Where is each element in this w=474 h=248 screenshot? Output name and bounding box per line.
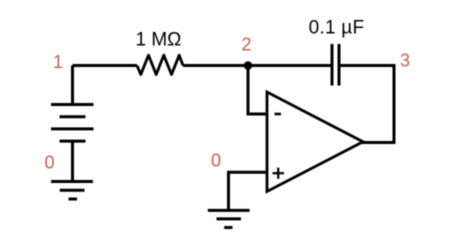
ground (op-amp non-inverting input) [208, 209, 250, 212]
battery V1 [51, 103, 94, 106]
svg-text:3: 3 [400, 51, 410, 71]
svg-text:1: 1 [53, 52, 63, 72]
op-amp U1 triangle [267, 92, 363, 192]
svg-text:2: 2 [242, 35, 252, 55]
wire node 1 down to battery [71, 66, 74, 105]
svg-text:0: 0 [211, 151, 221, 171]
op-amp non-inverting input marker + [273, 172, 285, 174]
ground (battery) [51, 180, 93, 183]
wire battery to ground [71, 141, 74, 181]
capacitor C1 plates [331, 44, 334, 86]
wire non-inverting input to ground [229, 172, 268, 210]
svg-text:1 MΩ: 1 MΩ [136, 30, 182, 51]
op-amp inverting input marker - [275, 113, 282, 116]
svg-text:0: 0 [45, 153, 55, 173]
wire capacitor to node 3 corner down to op-amp output [341, 66, 395, 143]
svg-text:0.1 µF: 0.1 µF [309, 17, 365, 38]
resistor R1 1 MΩ [137, 55, 183, 74]
wire resistor to capacitor (through node 2) [183, 64, 331, 67]
wire node1 to resistor [73, 64, 138, 67]
wire node 2 to inverting input [248, 66, 267, 115]
junction node 2 [244, 61, 253, 70]
